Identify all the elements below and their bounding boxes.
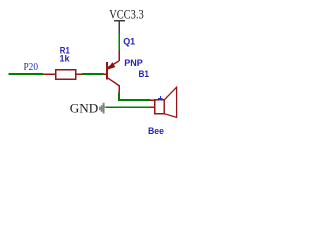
svg-text:GND: GND	[70, 101, 99, 116]
svg-text:P20: P20	[24, 61, 39, 73]
svg-text:VCC3.3: VCC3.3	[109, 6, 144, 21]
svg-text:Bee: Bee	[148, 126, 164, 137]
svg-text:Q1: Q1	[123, 37, 136, 48]
svg-text:1k: 1k	[60, 54, 71, 65]
svg-text:B1: B1	[139, 69, 150, 80]
svg-text:PNP: PNP	[124, 58, 143, 69]
